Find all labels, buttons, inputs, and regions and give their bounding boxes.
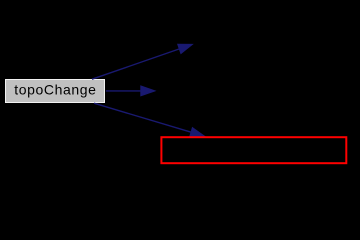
- red highlighted node (empty): [161, 137, 346, 163]
- edge to middle node: [106, 86, 155, 96]
- node topoChange: [6, 80, 105, 103]
- edge to red node: [94, 103, 205, 137]
- edge to upper node: [92, 44, 192, 79]
- svg-text:topoChange: topoChange: [14, 82, 96, 98]
